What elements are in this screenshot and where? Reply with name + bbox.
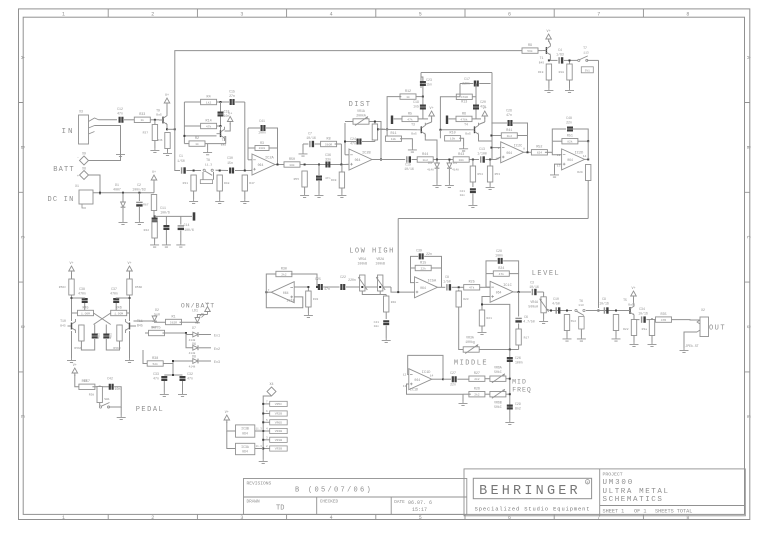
junction <box>307 286 309 288</box>
junction <box>550 310 552 312</box>
wire <box>119 324 121 327</box>
wire <box>220 117 222 127</box>
wire <box>448 169 450 183</box>
svg-text:IC5A: IC5A <box>428 279 437 283</box>
svg-text:V+: V+ <box>483 107 487 111</box>
wire <box>543 313 545 319</box>
junction <box>377 128 379 130</box>
junction <box>304 164 306 166</box>
svg-text:BEHRINGER: BEHRINGER <box>479 484 581 499</box>
wire T5 collector <box>633 298 636 307</box>
svg-text:064: 064 <box>496 290 502 294</box>
resistor R41 <box>501 129 517 138</box>
svg-text:R29: R29 <box>577 171 583 174</box>
svg-text:T4: T4 <box>464 123 468 127</box>
wire T1 emitter <box>549 57 551 61</box>
svg-text:JPEk-ST: JPEk-ST <box>685 344 698 348</box>
ground below R42 <box>150 243 159 248</box>
ground at X4 <box>259 459 268 464</box>
svg-text:1k: 1k <box>195 142 199 146</box>
svg-text:IC3B: IC3B <box>241 427 249 431</box>
wire <box>573 129 588 141</box>
wire IC2A minus <box>248 159 252 161</box>
wire branch down <box>340 144 342 165</box>
op-amp IC5A <box>415 277 438 298</box>
svg-text:IC2A: IC2A <box>265 157 274 161</box>
junction <box>422 96 424 98</box>
wire <box>518 324 520 330</box>
wire <box>422 110 424 119</box>
svg-text:8: 8 <box>686 11 689 17</box>
svg-text:10k: 10k <box>450 137 456 141</box>
resistor R61 <box>613 315 618 331</box>
svg-text:100/6: 100/6 <box>184 228 194 232</box>
wire T3 base <box>378 128 417 131</box>
svg-text:47k: 47k <box>469 286 475 290</box>
feedback resistor R3 <box>255 146 269 151</box>
capacitor C32 <box>180 372 193 381</box>
wire <box>380 294 386 296</box>
svg-text:R17: R17 <box>524 337 530 340</box>
electrode bar at R5 <box>391 116 393 125</box>
wire <box>184 143 189 145</box>
capacitor C8 <box>443 275 451 291</box>
svg-text:4: 4 <box>330 11 333 17</box>
svg-text:LOW HIGH: LOW HIGH <box>349 248 395 256</box>
wire <box>527 136 529 153</box>
wire <box>472 182 474 187</box>
ground below R55 <box>300 193 309 198</box>
frame column numbers top <box>62 11 689 17</box>
svg-text:C20: C20 <box>480 100 486 104</box>
junction <box>262 430 264 432</box>
resistor R1 <box>166 315 182 324</box>
svg-text:T3: T3 <box>411 123 415 127</box>
resistor R24 <box>493 267 509 276</box>
svg-text:100n: 100n <box>515 361 523 365</box>
svg-text:R55: R55 <box>294 178 300 181</box>
svg-text:R56A: R56A <box>74 347 81 350</box>
wire <box>145 332 151 334</box>
svg-text:T5: T5 <box>623 298 627 302</box>
transistor T11 <box>125 319 133 333</box>
capacitor C9 <box>599 297 609 314</box>
resistor R9 <box>522 44 538 53</box>
svg-text:R44: R44 <box>422 153 428 157</box>
svg-text:1.00M: 1.00M <box>114 312 123 315</box>
ground below C32 <box>178 392 187 397</box>
svg-text:470k: 470k <box>460 117 467 121</box>
svg-text:824: 824 <box>537 152 543 155</box>
op-amp IC2C <box>501 142 524 163</box>
resistor R35 <box>656 313 672 322</box>
svg-text:B45: B45 <box>60 325 66 328</box>
wire <box>506 393 510 395</box>
wire <box>369 122 381 160</box>
wire <box>217 125 221 127</box>
svg-text:47n: 47n <box>153 377 159 381</box>
svg-text:V+: V+ <box>152 171 156 175</box>
svg-text:LEVEL: LEVEL <box>532 270 561 278</box>
wire <box>263 403 270 405</box>
svg-text:15n: 15n <box>426 83 432 87</box>
junction <box>220 101 222 103</box>
svg-text:82k: 82k <box>567 140 573 144</box>
svg-text:R13: R13 <box>461 101 467 105</box>
wire <box>180 231 182 243</box>
svg-text:13: 13 <box>557 165 561 168</box>
wire <box>213 172 215 180</box>
capacitor C39 <box>416 249 432 260</box>
junction <box>651 319 653 321</box>
svg-text:R3a: R3a <box>642 328 648 331</box>
svg-text:100kg: 100kg <box>465 340 475 344</box>
ground at C7 <box>299 152 308 157</box>
wire <box>646 319 656 321</box>
junction <box>99 386 101 388</box>
wire <box>386 129 388 138</box>
plug SV3 <box>200 180 212 184</box>
wire <box>485 393 491 395</box>
V+ at LED <box>205 302 211 314</box>
wire <box>506 378 510 380</box>
svg-text:47k: 47k <box>206 124 212 128</box>
junction <box>379 286 381 288</box>
svg-text:DATE: DATE <box>394 500 405 505</box>
wire <box>184 101 200 103</box>
resistor R13 <box>456 94 472 105</box>
svg-text:1k2: 1k2 <box>206 100 212 104</box>
svg-text:C: C <box>19 236 25 239</box>
ground below R19 <box>544 88 553 93</box>
svg-text:C48: C48 <box>566 116 572 120</box>
svg-text:4148: 4148 <box>452 169 459 172</box>
wire <box>217 101 229 103</box>
svg-text:100n: 100n <box>258 131 266 135</box>
svg-text:47k: 47k <box>499 272 505 276</box>
svg-text:1.00M: 1.00M <box>81 312 90 315</box>
op-amp IC2B <box>349 149 372 170</box>
wire <box>92 386 111 388</box>
frame row letters right <box>745 56 751 418</box>
wire to first stage <box>167 128 175 130</box>
svg-text:R27: R27 <box>474 372 480 376</box>
resistor R21 <box>479 310 484 326</box>
wire <box>422 86 424 97</box>
svg-text:C37: C37 <box>111 287 117 291</box>
V+ supply at T9 <box>164 94 170 106</box>
wire IC2D minus up <box>552 141 561 155</box>
svg-text:FREQ: FREQ <box>512 387 532 394</box>
ground below R36 <box>163 151 172 156</box>
junction <box>569 59 571 61</box>
wire <box>362 141 375 143</box>
svg-text:50kC: 50kC <box>494 370 502 374</box>
resistor R55 <box>302 171 307 187</box>
svg-text:10: 10 <box>495 157 499 160</box>
wire <box>154 141 156 149</box>
svg-text:12: 12 <box>403 374 407 377</box>
resistor R56A <box>79 325 84 341</box>
resistor R57 <box>79 380 95 389</box>
capacitor C6 <box>515 315 534 324</box>
svg-text:PEDAL: PEDAL <box>136 406 165 414</box>
wire pot bottoms <box>362 291 380 295</box>
junction <box>344 141 346 143</box>
diode D7 <box>192 326 198 337</box>
wire <box>205 143 226 145</box>
wire <box>94 325 96 334</box>
svg-text:REVISIONS: REVISIONS <box>247 480 272 486</box>
svg-text:100kB: 100kB <box>375 261 385 265</box>
wire <box>220 126 222 130</box>
svg-text:R22: R22 <box>623 328 629 331</box>
capacitor C41 <box>258 119 266 135</box>
wire plus input to mid rail <box>482 304 510 349</box>
svg-text:R33: R33 <box>139 113 145 117</box>
frame column ticks bottom <box>108 514 643 519</box>
svg-text:4148: 4148 <box>189 366 196 369</box>
ground below R10 <box>459 146 468 151</box>
svg-text:R5: R5 <box>408 112 412 116</box>
wire <box>569 60 571 64</box>
svg-text:1k: 1k <box>140 118 144 122</box>
svg-text:D7: D7 <box>192 326 196 330</box>
svg-text:B: B <box>19 146 25 149</box>
svg-text:R54: R54 <box>478 173 484 176</box>
svg-text:R52: R52 <box>536 146 542 150</box>
junction <box>397 291 399 293</box>
wire <box>479 83 490 85</box>
resistor R58 <box>97 387 102 403</box>
ground below R49 <box>337 193 346 198</box>
svg-text:A: A <box>745 56 751 59</box>
resistor R14 <box>201 119 217 128</box>
wire <box>84 303 86 313</box>
wire <box>394 118 403 120</box>
wire <box>193 191 195 199</box>
wire into clip stage <box>378 159 405 161</box>
IC IC3B <box>236 425 255 437</box>
wire <box>255 430 263 432</box>
svg-text:470R: 470R <box>461 96 468 99</box>
V+ at T4 <box>482 107 488 119</box>
wire <box>586 310 626 312</box>
svg-text:C4: C4 <box>558 48 562 52</box>
svg-text:R9: R9 <box>528 44 532 48</box>
pedal switch SW1 <box>99 403 109 409</box>
junction <box>361 286 363 288</box>
wire <box>99 403 101 408</box>
junction <box>262 403 264 405</box>
svg-text:V+: V+ <box>225 411 229 415</box>
wire IC2A output <box>275 164 286 166</box>
wire <box>472 160 474 167</box>
svg-text:R38: R38 <box>152 357 158 361</box>
junction <box>587 140 589 142</box>
wire drop to tone <box>397 219 399 293</box>
wire <box>115 303 117 313</box>
ground below R32 <box>304 313 313 318</box>
svg-text:4148: 4148 <box>427 169 434 172</box>
svg-text:R12: R12 <box>405 90 411 94</box>
svg-text:C23: C23 <box>426 78 432 82</box>
svg-text:R67: R67 <box>143 204 149 207</box>
svg-text:R35: R35 <box>660 313 666 317</box>
wire <box>552 140 562 142</box>
svg-text:R4: R4 <box>207 95 211 99</box>
wire T9 base drop <box>154 120 156 126</box>
resistor R54 <box>470 166 475 182</box>
capacitor C22 <box>340 275 356 290</box>
wire battery minus <box>89 152 121 161</box>
svg-text:BaS: BaS <box>411 133 417 136</box>
svg-text:VR1B: VR1B <box>275 439 282 442</box>
svg-text:VR4A: VR4A <box>530 300 538 304</box>
wire <box>400 139 412 148</box>
wire <box>263 439 270 441</box>
junction <box>220 125 222 127</box>
connector pin VR4B <box>266 428 287 434</box>
wire <box>420 73 422 89</box>
wire <box>235 170 252 172</box>
svg-text:C19: C19 <box>413 100 419 104</box>
svg-text:BaS: BaS <box>156 114 162 117</box>
svg-text:10n: 10n <box>115 387 121 391</box>
svg-text:V+: V+ <box>430 107 434 111</box>
svg-text:R48: R48 <box>224 182 230 185</box>
svg-text:R37: R37 <box>143 132 149 135</box>
resistor R11 <box>386 132 402 141</box>
wire <box>71 273 73 280</box>
svg-text:1/63: 1/63 <box>556 53 564 57</box>
capacitor C12 <box>117 107 123 123</box>
wire <box>345 121 353 123</box>
resistor R2 <box>189 137 205 146</box>
V+ at T2 <box>227 112 233 124</box>
svg-text:Ex1: Ex1 <box>214 335 220 339</box>
wire <box>138 207 140 220</box>
svg-text:VR1A: VR1A <box>357 109 365 113</box>
capacitor C30 <box>227 156 233 174</box>
svg-text:47n: 47n <box>325 177 331 180</box>
svg-text:Ex3: Ex3 <box>214 361 220 365</box>
svg-text:R15: R15 <box>420 261 426 265</box>
svg-text:R26: R26 <box>474 388 480 392</box>
wire <box>457 378 470 380</box>
svg-text:R21: R21 <box>487 317 493 320</box>
capacitor C1 <box>177 154 185 174</box>
svg-text:LD1: LD1 <box>192 309 198 313</box>
wire <box>651 336 653 343</box>
wire jack sleeve <box>95 126 121 153</box>
wire <box>154 223 156 226</box>
ground at output jack <box>680 348 689 353</box>
connector pin VR6D <box>266 419 287 425</box>
svg-text:R3: R3 <box>260 141 264 145</box>
wire <box>475 110 477 119</box>
switch T7 <box>578 46 588 62</box>
connector pin VR2B <box>266 410 287 416</box>
junction <box>138 192 140 194</box>
wire <box>374 122 376 125</box>
svg-text:C34: C34 <box>639 307 645 311</box>
svg-text:220n: 220n <box>348 278 356 282</box>
svg-text:470n: 470n <box>110 292 118 296</box>
svg-text:3: 3 <box>240 11 243 17</box>
wire IC1B minus loop <box>266 292 303 308</box>
wire T2 stage left rail <box>183 102 185 144</box>
wire T4 collector <box>479 122 485 125</box>
capacitor C26 100n <box>507 358 513 361</box>
svg-text:B (05/07/06): B (05/07/06) <box>295 487 373 495</box>
wire <box>433 159 454 161</box>
ground at IC2D <box>550 173 559 178</box>
wire <box>138 193 140 201</box>
junction <box>566 310 568 312</box>
svg-text:R8: R8 <box>327 137 331 141</box>
junction <box>122 192 124 194</box>
capacitor C33 <box>153 372 167 381</box>
svg-text:BaS: BaS <box>465 133 471 136</box>
svg-text:IC1B: IC1B <box>286 300 295 304</box>
svg-text:IC2C: IC2C <box>514 144 523 148</box>
wire <box>143 350 147 364</box>
wire VR3A to R17 <box>479 349 519 351</box>
svg-text:47R: 47R <box>661 319 667 322</box>
ground below R47 <box>240 199 249 204</box>
ground at T11 <box>125 358 134 363</box>
connector pin VR1B <box>266 436 287 442</box>
svg-text:C6: C6 <box>524 315 528 319</box>
capacitor C4 <box>556 48 564 64</box>
resistor R53 <box>487 166 492 182</box>
wire decoupling rail <box>155 215 192 217</box>
svg-text:C26: C26 <box>515 356 521 360</box>
svg-text:100n: 100n <box>495 254 503 258</box>
svg-text:064: 064 <box>355 158 361 162</box>
wire <box>578 140 588 142</box>
wire <box>122 193 124 202</box>
svg-text:C33: C33 <box>153 372 159 376</box>
svg-text:8: 8 <box>523 148 525 151</box>
junction <box>262 448 264 450</box>
wire IC2D output <box>585 158 589 160</box>
svg-text:064: 064 <box>242 450 248 454</box>
wire <box>172 364 174 376</box>
svg-text:V+: V+ <box>73 364 77 368</box>
svg-text:100n/63: 100n/63 <box>132 188 145 192</box>
V+ supply at T1 <box>546 30 552 42</box>
wire <box>580 329 582 337</box>
svg-text:200kA: 200kA <box>356 114 366 118</box>
wire IC2D plus <box>555 164 562 172</box>
resistor R16 <box>564 315 569 331</box>
wire <box>81 339 94 350</box>
wire T3 left rail <box>387 97 401 130</box>
wire <box>155 321 168 323</box>
capacitor C38 <box>78 287 88 302</box>
svg-text:C42: C42 <box>107 377 113 381</box>
svg-text:C14: C14 <box>184 223 190 227</box>
potentiometer VR3A <box>463 345 479 354</box>
capacitor C34 <box>638 307 648 323</box>
svg-text:4.7/50: 4.7/50 <box>523 320 535 324</box>
wire <box>182 381 184 392</box>
resistor R22 <box>631 320 636 336</box>
junction <box>509 349 511 351</box>
svg-text:Specialized Studio Equipment: Specialized Studio Equipment <box>475 506 591 512</box>
